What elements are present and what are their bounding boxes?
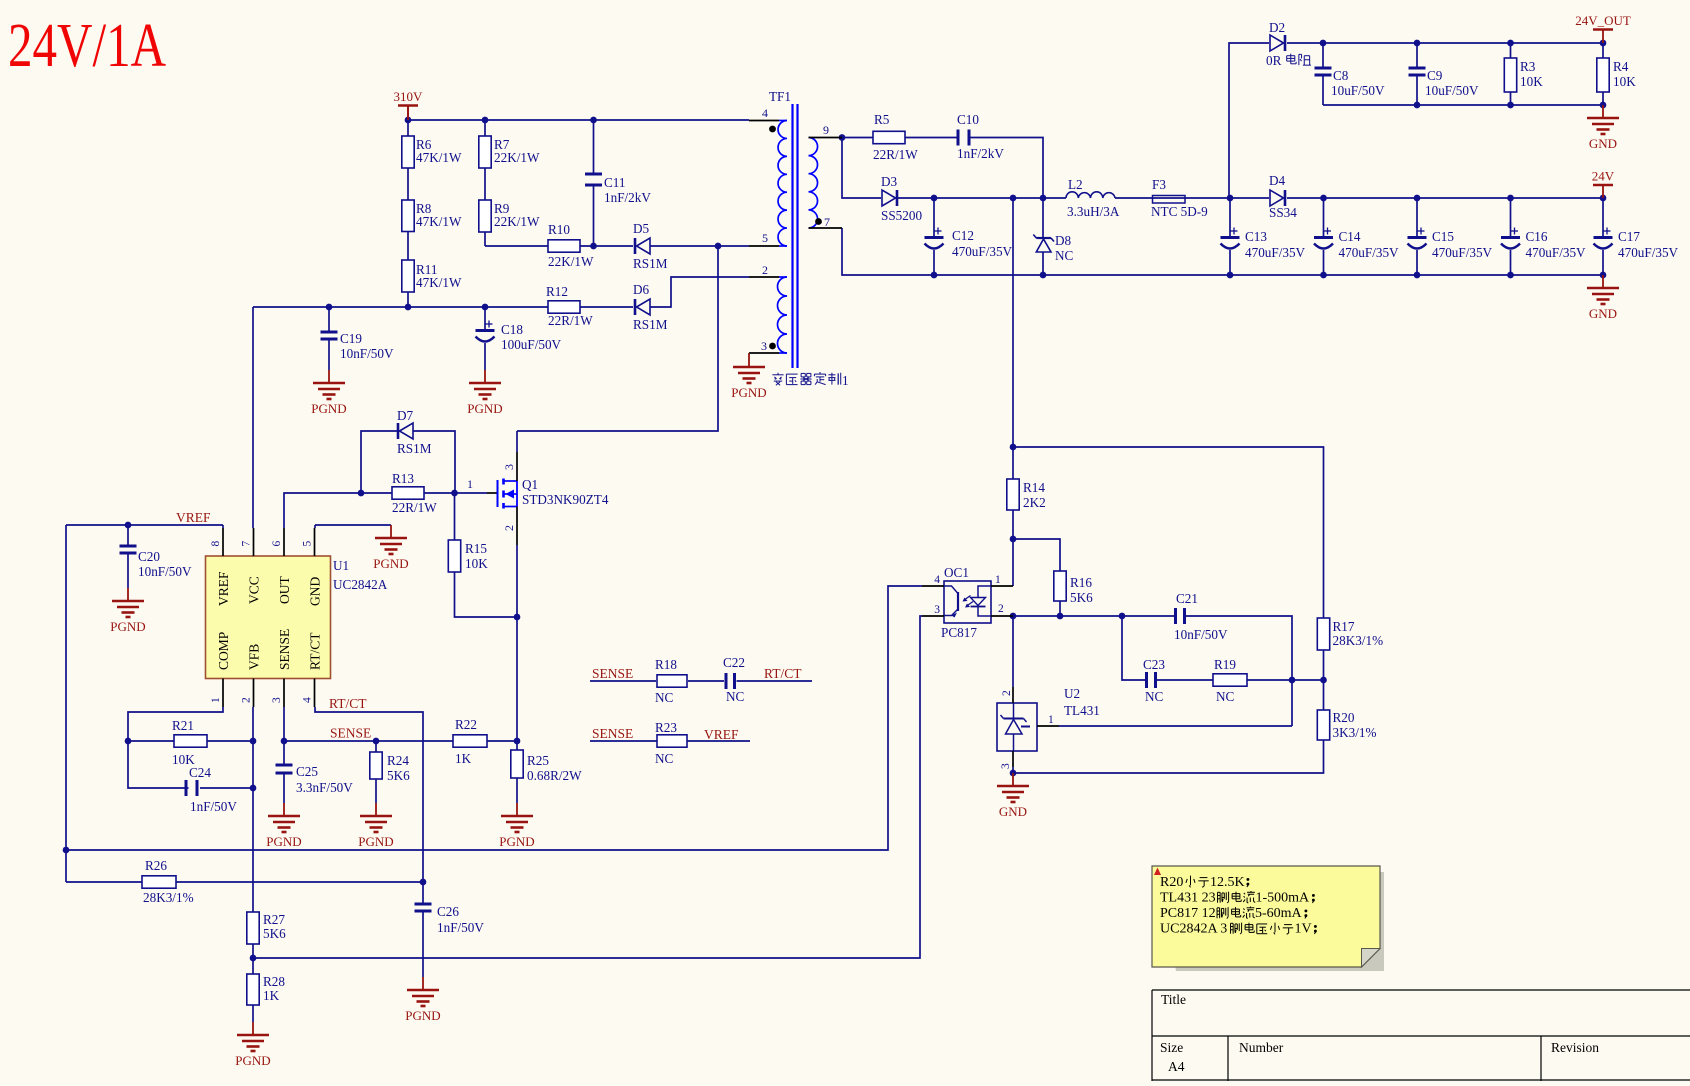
svg-text:28K3/1%: 28K3/1% [1333, 633, 1384, 648]
svg-text:VCC: VCC [247, 576, 262, 604]
svg-text:10nF/50V: 10nF/50V [138, 564, 192, 579]
svg-text:R10: R10 [548, 222, 570, 237]
svg-text:47K/1W: 47K/1W [416, 275, 462, 290]
svg-text:R5: R5 [874, 112, 890, 127]
svg-text:10nF/50V: 10nF/50V [1174, 627, 1228, 642]
svg-text:1-500mA: 1-500mA [1256, 891, 1311, 906]
svg-text:3: 3 [761, 339, 767, 353]
svg-text:R3: R3 [1520, 59, 1536, 74]
svg-text:R12: R12 [546, 284, 568, 299]
svg-text:C11: C11 [604, 175, 626, 190]
svg-text:UC2842A 3: UC2842A 3 [1160, 922, 1227, 937]
svg-text:NC: NC [1055, 248, 1074, 263]
svg-text:100uF/50V: 100uF/50V [501, 337, 562, 352]
svg-text:D4: D4 [1269, 173, 1286, 188]
svg-text:VFB: VFB [247, 644, 262, 670]
svg-text:NC: NC [655, 751, 674, 766]
svg-text:F3: F3 [1152, 177, 1166, 192]
svg-text:C19: C19 [340, 331, 362, 346]
svg-text:PGND: PGND [358, 834, 393, 849]
svg-text:1: 1 [842, 373, 849, 388]
svg-text:1: 1 [1048, 714, 1054, 726]
svg-text:C24: C24 [189, 765, 211, 780]
svg-text:R27: R27 [263, 912, 285, 927]
svg-text:3: 3 [271, 697, 283, 703]
svg-text:10nF/50V: 10nF/50V [340, 346, 394, 361]
svg-text:D5: D5 [633, 221, 650, 236]
svg-text:1: 1 [995, 574, 1001, 586]
svg-text:PGND: PGND [373, 556, 408, 571]
svg-text:1: 1 [210, 697, 222, 703]
svg-text:A4: A4 [1168, 1059, 1185, 1074]
svg-text:0.68R/2W: 0.68R/2W [527, 768, 582, 783]
svg-text:C13: C13 [1245, 229, 1267, 244]
svg-text:VREF: VREF [704, 727, 739, 742]
svg-text:5K6: 5K6 [1070, 590, 1093, 605]
svg-text:470uF/35V: 470uF/35V [1526, 245, 1587, 260]
svg-text:4: 4 [302, 697, 314, 703]
svg-text:3K3/1%: 3K3/1% [1333, 725, 1377, 740]
svg-text:22K/1W: 22K/1W [494, 150, 540, 165]
svg-text:VREF: VREF [216, 571, 231, 606]
svg-text:47K/1W: 47K/1W [416, 214, 462, 229]
svg-text:R17: R17 [1333, 619, 1355, 634]
svg-text:Revision: Revision [1551, 1040, 1599, 1055]
svg-text:PGND: PGND [467, 401, 502, 416]
svg-text:7: 7 [824, 215, 830, 229]
svg-text:5K6: 5K6 [387, 768, 410, 783]
svg-text:1nF/2kV: 1nF/2kV [957, 146, 1004, 161]
svg-text:310V: 310V [394, 89, 424, 104]
svg-text:1nF/2kV: 1nF/2kV [604, 190, 651, 205]
svg-text:R28: R28 [263, 974, 285, 989]
svg-text:NC: NC [655, 690, 674, 705]
svg-text:D3: D3 [881, 174, 898, 189]
svg-text:GND: GND [999, 804, 1027, 819]
svg-text:5: 5 [762, 231, 768, 245]
svg-text:1: 1 [467, 477, 473, 491]
svg-text:22R/1W: 22R/1W [392, 500, 437, 515]
svg-text:VREF: VREF [176, 510, 211, 525]
svg-text:2: 2 [502, 525, 516, 531]
svg-text:47K/1W: 47K/1W [416, 150, 462, 165]
svg-text:470uF/35V: 470uF/35V [1245, 245, 1306, 260]
svg-text:2: 2 [762, 263, 768, 277]
svg-text:8: 8 [210, 541, 222, 547]
svg-text:1K: 1K [263, 988, 280, 1003]
svg-text:470uF/35V: 470uF/35V [952, 244, 1013, 259]
svg-text:5-60mA: 5-60mA [1255, 906, 1303, 921]
svg-text:C20: C20 [138, 549, 160, 564]
svg-text:SS34: SS34 [1269, 205, 1297, 220]
svg-text:3.3nF/50V: 3.3nF/50V [296, 780, 353, 795]
svg-text:10K: 10K [1613, 74, 1636, 89]
svg-text:2: 2 [998, 603, 1004, 615]
svg-text:C26: C26 [437, 904, 459, 919]
svg-text:10K: 10K [1520, 74, 1543, 89]
svg-text:1nF/50V: 1nF/50V [190, 799, 237, 814]
svg-text:C18: C18 [501, 322, 523, 337]
svg-text:L2: L2 [1068, 177, 1083, 192]
svg-text:RS1M: RS1M [397, 441, 432, 456]
svg-text:RT/CT: RT/CT [329, 696, 367, 711]
svg-text:SENSE: SENSE [592, 726, 633, 741]
svg-text:C16: C16 [1526, 229, 1548, 244]
svg-text:10uF/50V: 10uF/50V [1425, 83, 1479, 98]
svg-text:10uF/50V: 10uF/50V [1331, 83, 1385, 98]
svg-text:C14: C14 [1339, 229, 1361, 244]
svg-text:R26: R26 [145, 858, 167, 873]
svg-text:R21: R21 [172, 718, 194, 733]
svg-text:22K/1W: 22K/1W [548, 254, 594, 269]
svg-text:12.5K: 12.5K [1210, 875, 1245, 890]
svg-text:9: 9 [823, 123, 829, 137]
svg-text:TL431 23: TL431 23 [1160, 891, 1216, 906]
svg-text:R14: R14 [1023, 480, 1045, 495]
svg-text:7: 7 [241, 541, 253, 547]
svg-text:COMP: COMP [216, 632, 231, 670]
svg-text:PC817: PC817 [941, 625, 977, 640]
svg-text:C17: C17 [1618, 229, 1640, 244]
svg-text:Title: Title [1161, 992, 1186, 1007]
svg-text:C22: C22 [723, 655, 745, 670]
svg-text:1K: 1K [455, 751, 472, 766]
svg-text:R20: R20 [1333, 710, 1355, 725]
svg-text:D7: D7 [397, 408, 414, 423]
svg-text:NC: NC [1216, 689, 1235, 704]
svg-text:1nF/50V: 1nF/50V [437, 920, 484, 935]
svg-text:C15: C15 [1432, 229, 1454, 244]
svg-text:RS1M: RS1M [633, 256, 668, 271]
svg-text:GND: GND [1589, 136, 1617, 151]
svg-text:3: 3 [934, 604, 940, 616]
svg-text:TL431: TL431 [1064, 703, 1100, 718]
svg-text:OC1: OC1 [944, 565, 969, 580]
svg-text:D8: D8 [1055, 233, 1072, 248]
svg-text:SENSE: SENSE [277, 629, 292, 670]
svg-text:C9: C9 [1427, 68, 1443, 83]
svg-text:C8: C8 [1333, 68, 1349, 83]
svg-text:PGND: PGND [235, 1053, 270, 1068]
svg-text:GND: GND [1589, 306, 1617, 321]
svg-text:24V_OUT: 24V_OUT [1575, 13, 1631, 28]
svg-text:2: 2 [241, 697, 253, 703]
svg-text:470uF/35V: 470uF/35V [1618, 245, 1679, 260]
svg-text:R20: R20 [1160, 875, 1183, 890]
svg-text:NC: NC [726, 689, 745, 704]
svg-text:Size: Size [1160, 1040, 1183, 1055]
svg-text:C25: C25 [296, 764, 318, 779]
svg-text:PGND: PGND [499, 834, 534, 849]
svg-text:C12: C12 [952, 228, 974, 243]
svg-text:NC: NC [1145, 689, 1164, 704]
svg-text:SENSE: SENSE [592, 666, 633, 681]
svg-text:R15: R15 [465, 541, 487, 556]
svg-text:R18: R18 [655, 657, 677, 672]
svg-text:R13: R13 [392, 471, 414, 486]
svg-text:R23: R23 [655, 720, 677, 735]
svg-text:C23: C23 [1143, 657, 1165, 672]
svg-text:0R: 0R [1266, 53, 1282, 68]
svg-text:PGND: PGND [266, 834, 301, 849]
svg-text:RS1M: RS1M [633, 317, 668, 332]
svg-text:R25: R25 [527, 753, 549, 768]
svg-text:RT/CT: RT/CT [764, 666, 802, 681]
svg-text:Q1: Q1 [522, 477, 538, 492]
svg-text:470uF/35V: 470uF/35V [1339, 245, 1400, 260]
svg-text:4: 4 [934, 574, 940, 586]
svg-text:U2: U2 [1064, 686, 1080, 701]
svg-text:5: 5 [302, 541, 314, 547]
svg-text:R22: R22 [455, 717, 477, 732]
svg-text:24V/1A: 24V/1A [8, 12, 166, 80]
svg-text:10K: 10K [465, 556, 488, 571]
svg-text:28K3/1%: 28K3/1% [143, 890, 194, 905]
svg-text:SENSE: SENSE [330, 726, 371, 741]
svg-text:1V: 1V [1295, 922, 1312, 937]
svg-text:R24: R24 [387, 753, 409, 768]
svg-text:2K2: 2K2 [1023, 495, 1046, 510]
svg-text:TF1: TF1 [769, 89, 791, 104]
svg-text:C21: C21 [1176, 591, 1198, 606]
svg-text:4: 4 [762, 106, 768, 120]
svg-text:3.3uH/3A: 3.3uH/3A [1067, 204, 1120, 219]
svg-text:U1: U1 [333, 558, 349, 573]
svg-text:3: 3 [502, 464, 516, 470]
svg-text:22R/1W: 22R/1W [548, 313, 593, 328]
svg-text:PGND: PGND [405, 1008, 440, 1023]
svg-text:R4: R4 [1613, 59, 1629, 74]
svg-text:R19: R19 [1214, 657, 1236, 672]
svg-text:PC817 12: PC817 12 [1160, 906, 1216, 921]
svg-text:6: 6 [271, 541, 283, 547]
svg-text:NTC 5D-9: NTC 5D-9 [1151, 204, 1208, 219]
svg-text:R16: R16 [1070, 575, 1092, 590]
svg-text:PGND: PGND [731, 385, 766, 400]
svg-text:D6: D6 [633, 282, 650, 297]
svg-text:22R/1W: 22R/1W [873, 147, 918, 162]
svg-text:SS5200: SS5200 [881, 208, 922, 223]
svg-text:STD3NK90ZT4: STD3NK90ZT4 [522, 492, 609, 507]
svg-text:RT/CT: RT/CT [308, 632, 323, 670]
svg-text:D2: D2 [1269, 20, 1285, 35]
svg-text:GND: GND [308, 577, 323, 606]
svg-text:3: 3 [1000, 763, 1012, 769]
svg-text:5K6: 5K6 [263, 926, 286, 941]
svg-text:C10: C10 [957, 112, 979, 127]
svg-text:PGND: PGND [311, 401, 346, 416]
svg-text:PGND: PGND [110, 619, 145, 634]
svg-text:470uF/35V: 470uF/35V [1432, 245, 1493, 260]
svg-text:Number: Number [1239, 1040, 1284, 1055]
svg-text:24V: 24V [1592, 169, 1615, 184]
svg-text:UC2842A: UC2842A [333, 577, 388, 592]
svg-text:OUT: OUT [277, 576, 292, 604]
svg-text:2: 2 [1001, 690, 1013, 696]
svg-text:22K/1W: 22K/1W [494, 214, 540, 229]
